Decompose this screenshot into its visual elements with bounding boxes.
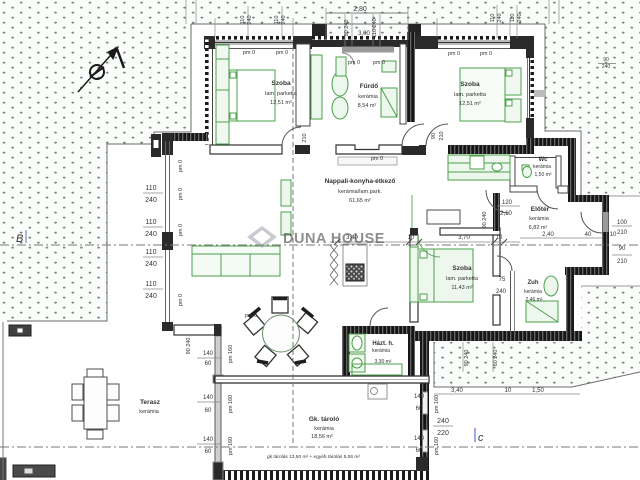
svg-text:kerámia: kerámia <box>529 216 550 222</box>
svg-text:60 240: 60 240 <box>493 350 499 367</box>
svg-text:110: 110 <box>490 14 496 23</box>
svg-text:3,30 m²: 3,30 m² <box>375 359 392 365</box>
svg-text:10: 10 <box>505 388 512 394</box>
svg-text:90: 90 <box>431 133 437 139</box>
svg-text:240: 240 <box>496 289 507 295</box>
svg-text:11,43 m²: 11,43 m² <box>451 285 472 291</box>
svg-text:240: 240 <box>145 231 157 238</box>
svg-text:90 240: 90 240 <box>482 212 488 229</box>
svg-text:pm 0: pm 0 <box>245 313 257 319</box>
svg-text:pm 0: pm 0 <box>276 50 288 56</box>
svg-text:pm 0: pm 0 <box>348 60 360 66</box>
svg-text:Zuh: Zuh <box>528 280 539 286</box>
svg-text:pm 0: pm 0 <box>373 60 385 66</box>
svg-text:DUNA HOUSE: DUNA HOUSE <box>283 231 385 247</box>
svg-text:1,50: 1,50 <box>532 388 544 394</box>
svg-text:pm 160: pm 160 <box>228 395 234 413</box>
svg-text:Szoba: Szoba <box>271 80 291 87</box>
svg-text:lam. parketta: lam. parketta <box>454 92 487 98</box>
svg-text:2,40: 2,40 <box>542 232 554 238</box>
svg-text:2,46 m²: 2,46 m² <box>526 297 543 303</box>
svg-text:110: 110 <box>145 219 156 226</box>
svg-text:40: 40 <box>585 232 592 238</box>
svg-text:140: 140 <box>203 437 214 443</box>
svg-text:60: 60 <box>416 406 423 412</box>
svg-text:Nappali-konyha-étkező: Nappali-konyha-étkező <box>325 178 396 185</box>
svg-text:110: 110 <box>240 16 246 25</box>
svg-text:240: 240 <box>247 15 253 24</box>
svg-text:110: 110 <box>145 185 156 192</box>
svg-text:pm 0: pm 0 <box>371 156 383 162</box>
svg-text:90 240: 90 240 <box>186 338 192 355</box>
svg-text:240: 240 <box>437 418 449 425</box>
svg-text:pm 0: pm 0 <box>448 51 460 57</box>
svg-text:3,40: 3,40 <box>451 388 463 394</box>
svg-text:lam. parketta: lam. parketta <box>446 276 479 282</box>
svg-text:90: 90 <box>619 246 626 252</box>
svg-text:240: 240 <box>145 197 157 204</box>
svg-text:140: 140 <box>203 351 214 357</box>
svg-text:60: 60 <box>205 449 212 455</box>
svg-text:240: 240 <box>145 261 157 268</box>
svg-text:210: 210 <box>302 133 308 142</box>
svg-text:pm 160: pm 160 <box>434 395 440 413</box>
svg-text:pm 160: pm 160 <box>228 345 234 363</box>
svg-text:240: 240 <box>497 13 503 22</box>
svg-text:140: 140 <box>203 395 214 401</box>
svg-text:Fürdő: Fürdő <box>360 83 378 90</box>
svg-text:Gk. tároló: Gk. tároló <box>309 416 339 423</box>
svg-text:Terasz: Terasz <box>140 399 161 406</box>
svg-text:10: 10 <box>496 235 503 241</box>
svg-text:c: c <box>478 432 484 444</box>
svg-text:110 240: 110 240 <box>372 18 378 37</box>
svg-text:210: 210 <box>439 131 445 140</box>
svg-text:220: 220 <box>437 430 449 437</box>
svg-text:lam. parketta: lam. parketta <box>265 91 298 97</box>
svg-text:pm 160: pm 160 <box>228 437 234 455</box>
svg-text:2,10: 2,10 <box>500 211 512 217</box>
svg-text:60: 60 <box>205 408 212 414</box>
svg-text:110: 110 <box>510 14 516 23</box>
svg-text:210: 210 <box>617 259 628 265</box>
svg-text:210: 210 <box>617 230 628 236</box>
svg-text:140: 140 <box>414 436 425 442</box>
svg-text:90 240: 90 240 <box>344 20 350 37</box>
svg-text:Szoba: Szoba <box>452 265 472 272</box>
svg-text:gk tárolás 13,50 m² + egyéb tá: gk tárolás 13,50 m² + egyéb tárolás 5,06… <box>267 454 360 460</box>
svg-text:240: 240 <box>517 13 523 22</box>
svg-text:240: 240 <box>602 64 611 70</box>
svg-text:12,51 m²: 12,51 m² <box>459 101 481 107</box>
svg-text:12,51 m²: 12,51 m² <box>270 100 292 106</box>
svg-text:B: B <box>16 233 23 245</box>
svg-text:pm 0: pm 0 <box>480 51 492 57</box>
svg-text:kerámia: kerámia <box>314 426 335 432</box>
svg-text:10: 10 <box>610 232 617 238</box>
svg-text:Előtér: Előtér <box>531 206 550 213</box>
svg-text:60: 60 <box>416 448 423 454</box>
svg-text:kerámia: kerámia <box>139 409 160 415</box>
svg-text:110: 110 <box>145 249 156 256</box>
svg-text:2,80: 2,80 <box>353 6 367 13</box>
svg-text:pm 160: pm 160 <box>434 437 440 455</box>
svg-text:kerámia/lam.park.: kerámia/lam.park. <box>338 189 382 195</box>
svg-text:100: 100 <box>617 220 628 226</box>
svg-text:90: 90 <box>603 57 609 63</box>
svg-text:kerámia: kerámia <box>524 289 542 295</box>
svg-text:18,56 m²: 18,56 m² <box>311 434 333 440</box>
svg-text:6,82 m²: 6,82 m² <box>529 225 548 231</box>
svg-text:140: 140 <box>414 394 425 400</box>
svg-text:110: 110 <box>145 281 156 288</box>
svg-text:240: 240 <box>281 15 287 24</box>
svg-text:8,54 m²: 8,54 m² <box>358 103 377 109</box>
svg-text:120: 120 <box>502 200 513 206</box>
svg-text:90 240: 90 240 <box>464 350 470 367</box>
svg-text:3,70: 3,70 <box>458 235 470 241</box>
svg-text:61,65 m²: 61,65 m² <box>349 198 371 204</box>
svg-text:kerámia: kerámia <box>358 94 379 100</box>
svg-text:pm 0: pm 0 <box>178 224 184 236</box>
svg-text:60: 60 <box>205 361 212 367</box>
svg-text:kerámia: kerámia <box>372 348 390 354</box>
svg-text:240: 240 <box>145 293 157 300</box>
svg-text:Szoba: Szoba <box>460 81 480 88</box>
svg-text:pm 0: pm 0 <box>178 188 184 200</box>
svg-text:1,50 m²: 1,50 m² <box>535 172 552 178</box>
svg-text:pm 0: pm 0 <box>178 160 184 172</box>
svg-text:pm 0: pm 0 <box>178 294 184 306</box>
svg-text:Házt. h.: Házt. h. <box>372 341 394 347</box>
svg-text:pm 0: pm 0 <box>243 50 255 56</box>
svg-text:kerámia: kerámia <box>533 164 551 170</box>
svg-text:3,00: 3,00 <box>358 31 370 37</box>
svg-text:75: 75 <box>499 277 506 283</box>
svg-text:10: 10 <box>408 235 415 241</box>
svg-text:110: 110 <box>274 16 280 25</box>
svg-text:Wc: Wc <box>539 157 549 163</box>
